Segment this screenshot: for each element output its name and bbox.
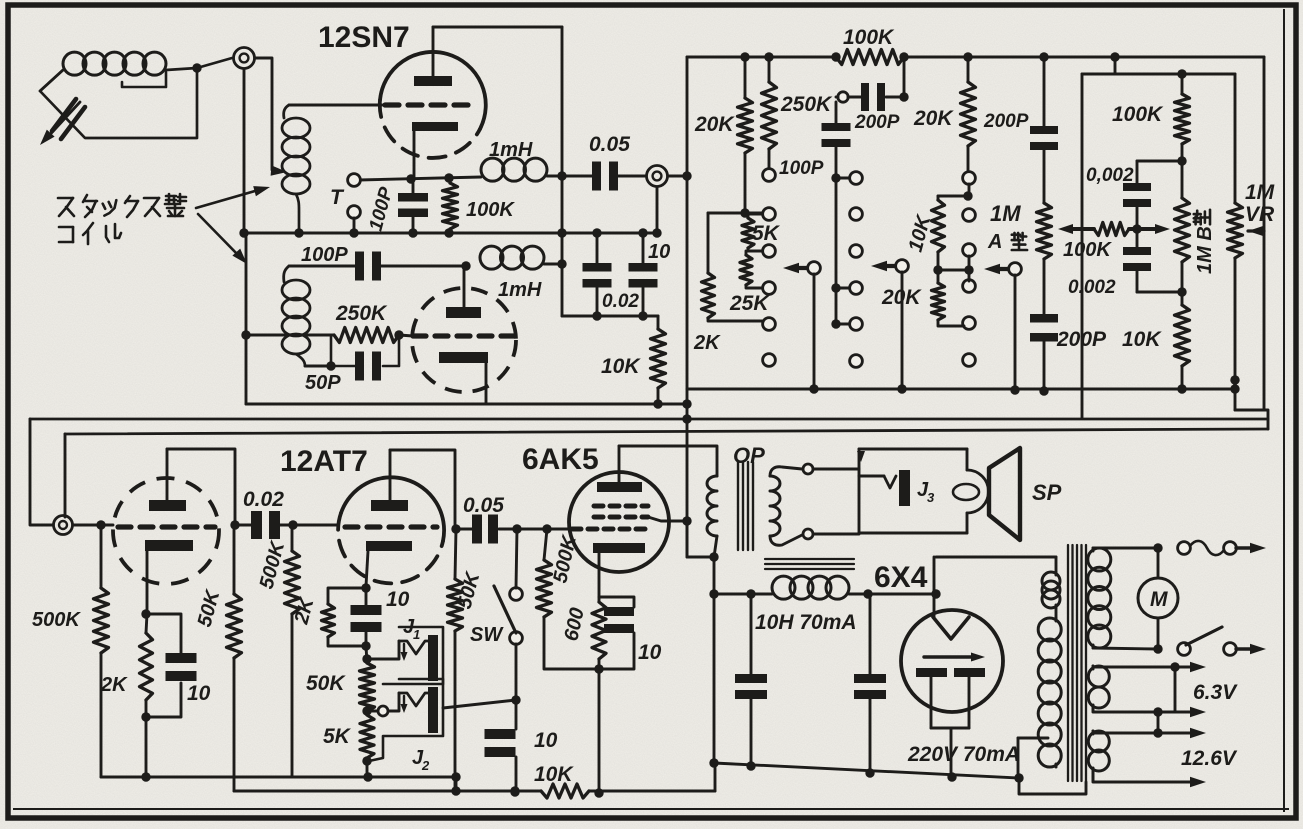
capacitor 200P (1MA top): [983, 57, 1058, 203]
svg-text:2: 2: [421, 758, 430, 773]
wire plate 6AK5 to OP: [619, 446, 717, 476]
tube V3 6AK5 envelope: [569, 472, 669, 572]
inductor 1mH (upper): [481, 139, 592, 181]
V3 grids: [572, 506, 648, 529]
wire cathode 6AK5 to ground: [594, 659, 603, 798]
svg-text:0,002: 0,002: [1086, 165, 1134, 186]
label 12.6V: [1181, 747, 1238, 770]
svg-text:100K: 100K: [1063, 239, 1112, 261]
V4 plates: [933, 557, 969, 639]
coil L1: [282, 105, 310, 233]
svg-text:1M: 1M: [990, 201, 1021, 226]
choke core marks: [765, 559, 854, 569]
capacitor 100P (bank2): [822, 102, 851, 178]
B+ bus (tone section): [687, 52, 1264, 61]
tube V1a 12SN7 envelope: [380, 52, 486, 158]
V1a grid: [385, 102, 470, 107]
svg-text:6.3V: 6.3V: [1193, 681, 1238, 704]
V3 plate: [597, 446, 642, 492]
svg-text:20K: 20K: [913, 107, 954, 130]
svg-text:6X4: 6X4: [874, 561, 928, 594]
svg-text:M: M: [1150, 588, 1168, 611]
svg-text:100P: 100P: [779, 158, 824, 179]
wire heater winding: [936, 557, 1056, 572]
wire PSU to PT bottom: [1019, 778, 1086, 794]
V2a grid: [118, 524, 215, 529]
resistor 10K (ground link): [534, 763, 715, 798]
bank2 column wire: [831, 173, 850, 328]
tube 12AT7 label: [280, 445, 368, 478]
svg-text:10K: 10K: [1122, 328, 1162, 351]
pickup cartridge and antenna coil: [40, 52, 232, 145]
ground bus (upper-left): [239, 228, 657, 237]
svg-text:1: 1: [413, 627, 420, 642]
svg-text:100K: 100K: [466, 199, 515, 221]
svg-text:5K: 5K: [323, 725, 352, 748]
input terminal T1: [234, 48, 255, 69]
label 100P (bank1): [779, 158, 824, 179]
wire 12.6V bottom: [1093, 771, 1206, 787]
wire HV return: [1014, 738, 1048, 783]
tube 12SN7 label: [318, 21, 410, 54]
V3 screen wire: [648, 517, 687, 521]
resistor 10K (dropper): [601, 316, 666, 404]
svg-text:12AT7: 12AT7: [280, 445, 368, 478]
transformer OP: [707, 462, 780, 550]
wire grid V2a: [73, 520, 113, 529]
ground bus (6AK5, with 10K): [234, 777, 541, 796]
svg-text:1mH: 1mH: [489, 139, 533, 161]
PT HV winding: [1038, 608, 1061, 767]
input terminal T3: [54, 516, 73, 535]
ground bus (12AT7): [101, 772, 461, 781]
tube V4 6X4 envelope: [901, 610, 1003, 712]
capacitor 0.05 (coupling): [589, 133, 646, 191]
wire grid1: [289, 104, 382, 107]
label 220V 70mA: [907, 743, 1020, 766]
V1a plate: [414, 27, 452, 86]
wire T2 to tone input: [668, 175, 687, 178]
wire caps bottom: [562, 311, 658, 320]
bottom wire upper box: [246, 399, 687, 408]
PSU ground bus: [714, 763, 1019, 782]
svg-text:VR: VR: [1245, 203, 1275, 226]
svg-text:3: 3: [927, 490, 935, 505]
motor M: [1138, 543, 1178, 653]
divider line lower: [65, 429, 1268, 434]
mains switch: [1178, 627, 1266, 655]
resistor 50K (grid return): [448, 529, 485, 791]
resistor 250K (bank1): [762, 57, 834, 169]
V2a plate: [149, 449, 186, 511]
resistor 100K (bus): [836, 26, 904, 65]
capacitor filter 2: [854, 594, 886, 778]
svg-text:0.05: 0.05: [463, 494, 504, 517]
resistor 20K (bank3 top): [913, 57, 976, 172]
potentiometer 1M A-type: [987, 201, 1052, 259]
switch bank3 contacts: [963, 172, 976, 367]
capacitor 100P (cathode): [366, 179, 428, 233]
capacitor 0.002 (lower): [1068, 229, 1187, 298]
svg-text:100P: 100P: [301, 244, 348, 266]
resistor 2K (bank1): [693, 213, 763, 354]
resistor 10K (bank3): [905, 184, 973, 270]
resistor 5K (bank1): [742, 214, 781, 251]
capacitor 0.002 (upper): [1086, 161, 1182, 229]
switch bank2 contacts: [850, 172, 863, 368]
series link windings: [1158, 667, 1175, 733]
resistor 2K (cathode V2b): [290, 588, 366, 646]
V4 heater: [924, 653, 985, 662]
capacitor filter 1: [735, 594, 767, 771]
svg-text:5K: 5K: [752, 222, 781, 245]
resistor 50K (pot): [306, 663, 375, 716]
resistor 50K (plate load V2a): [194, 525, 242, 791]
capacitor 100P (lower coupling): [355, 252, 381, 281]
resistor 500K (grid V2a): [32, 525, 109, 777]
PT 12.6V winding: [1088, 731, 1109, 771]
V2b grid: [345, 524, 437, 529]
potentiometer 1M VR: [1228, 74, 1276, 410]
wire terminal to coil tap: [255, 58, 287, 176]
svg-text:10: 10: [386, 588, 410, 611]
V4 cathodes: [916, 668, 985, 773]
svg-text:0.02: 0.02: [602, 291, 639, 312]
svg-text:1mH: 1mH: [498, 279, 542, 301]
svg-text:10: 10: [648, 241, 670, 263]
svg-text:50P: 50P: [305, 372, 341, 394]
V1b cathode: [439, 352, 488, 404]
terminal T pair: [330, 174, 360, 238]
svg-text:50K: 50K: [306, 672, 346, 695]
svg-text:6AK5: 6AK5: [522, 443, 599, 476]
svg-text:10K: 10K: [601, 355, 641, 378]
capacitor 10 (cathode V2a): [146, 614, 211, 717]
svg-text:20K: 20K: [881, 286, 922, 309]
output terminal T2: [647, 166, 668, 187]
label sutakkusu-sei koiru (Stax-made coil): [58, 194, 186, 244]
capacitor 10 (SW): [485, 700, 558, 797]
resistor 100K (treble top): [1112, 69, 1190, 198]
tube V1b 12SN7 envelope: [412, 288, 516, 392]
tube 6X4 label: [874, 561, 928, 594]
svg-text:200P: 200P: [983, 111, 1029, 132]
resistor 20K (bank3 bottom): [881, 270, 964, 326]
V2b cathode: [366, 541, 412, 586]
svg-text:1M: 1M: [1245, 181, 1275, 204]
svg-text:0.02: 0.02: [243, 488, 284, 511]
switch bank1 contacts: [763, 169, 776, 367]
svg-text:12.6V: 12.6V: [1181, 747, 1238, 770]
svg-text:0.002: 0.002: [1068, 277, 1116, 298]
V1a cathode: [412, 122, 458, 178]
svg-text:10H 70mA: 10H 70mA: [755, 611, 857, 634]
svg-text:10: 10: [638, 641, 662, 664]
resistor 25K (bank1): [729, 251, 770, 315]
V3 cathode: [593, 543, 645, 602]
inductor 1mH (lower): [480, 246, 562, 301]
bank3 wiper node: [933, 256, 1021, 390]
wire B+ riser: [682, 57, 691, 557]
label 10H 70mA: [755, 611, 857, 634]
svg-text:10: 10: [534, 729, 558, 752]
speaker SP: [989, 448, 1062, 540]
svg-text:2K: 2K: [693, 332, 721, 354]
svg-text:1M B: 1M B: [1194, 226, 1216, 274]
divider line upper: [30, 418, 1268, 421]
coil L2: [282, 266, 310, 366]
wire T2 shield to bus: [652, 187, 661, 238]
svg-text:100K: 100K: [843, 26, 895, 49]
capacitor 0.05 (coupling 2): [463, 494, 569, 544]
capacitor 200P (1MA bottom): [1030, 259, 1107, 396]
svg-text:SP: SP: [1032, 480, 1062, 505]
wire 6.3V bottom: [1093, 707, 1206, 717]
svg-text:10K: 10K: [534, 763, 574, 786]
resistor 500K (grid V2b): [256, 525, 300, 777]
svg-text:SW: SW: [470, 624, 504, 646]
tube V2b 12AT7 envelope: [338, 477, 444, 583]
jack J1: [368, 616, 443, 684]
tube V2a 12AT7 envelope: [113, 478, 219, 584]
wire cathode to pot: [362, 646, 371, 664]
wire 20K-2K link: [708, 208, 763, 217]
capacitor 10 (cathode 6AK5): [599, 597, 662, 669]
svg-text:500K: 500K: [32, 609, 81, 631]
potentiometer 1M B-type: [1175, 198, 1217, 305]
wire OP primary bottom: [709, 536, 718, 768]
transformer PT core: [1068, 545, 1086, 781]
resistor 10K (tone box): [1122, 305, 1190, 389]
svg-text:250K: 250K: [335, 302, 388, 325]
transformer OP label: [733, 443, 765, 468]
resistor 20K (bank1 top): [694, 57, 753, 213]
annotation arrow to coil L1: [196, 186, 270, 208]
wire grid-top L2: [289, 261, 471, 270]
OP secondary terminals: [770, 464, 813, 545]
V2a cathode: [145, 540, 193, 614]
svg-text:0.05: 0.05: [589, 133, 630, 156]
bank1 wiper arrow: [783, 262, 820, 389]
svg-text:220V 70mA: 220V 70mA: [907, 743, 1020, 766]
resistor 5K (pot): [323, 711, 374, 777]
wire plate V2b: [390, 450, 461, 534]
svg-text:12SN7: 12SN7: [318, 21, 410, 54]
tone box outline: [1082, 57, 1235, 418]
resistor 2K (cathode V2a): [100, 609, 153, 777]
PT 6.3V winding: [1088, 666, 1109, 708]
wire terminal to bus: [243, 69, 246, 233]
capacitor 0.02 (ripple): [583, 233, 640, 316]
wire J2 to SW: [443, 700, 516, 708]
wire divider to input terminal: [30, 419, 65, 525]
VR wiper arrow: [1235, 57, 1268, 429]
jack J3 plug: [859, 470, 979, 506]
capacitor 10 (ripple): [629, 233, 671, 316]
wire left rail upper box: [241, 233, 334, 404]
annotation arrow to coil L2: [198, 214, 247, 264]
svg-text:T: T: [330, 186, 345, 209]
resistor 100K (cathode): [443, 178, 516, 233]
resistor 600 (cathode): [560, 602, 606, 659]
node K1 wire: [359, 173, 481, 183]
svg-text:100K: 100K: [1112, 103, 1164, 126]
wire 12.6V top: [1093, 728, 1206, 738]
wire OP to J3: [813, 469, 859, 534]
label 6.3V: [1193, 681, 1238, 704]
fuse: [1178, 541, 1266, 555]
wire plate V2b to 0.05: [456, 528, 472, 531]
resistor 500K (grid 6AK5): [537, 529, 600, 669]
PT mains winding: [1088, 548, 1158, 649]
capacitor 10 (cathode V2b): [351, 583, 410, 650]
svg-text:200P: 200P: [854, 112, 900, 133]
resistor 250K (grid L2): [334, 302, 404, 343]
wire 6.3V top: [1093, 662, 1206, 672]
label 100P (lower): [301, 244, 348, 266]
svg-text:20K: 20K: [694, 113, 735, 136]
PT heater winding: [1042, 572, 1060, 608]
capacitor 50P: [305, 335, 399, 394]
capacitor 200P (bank2 top): [836, 57, 909, 133]
wire plate V1a to dropper: [433, 27, 567, 316]
treble wiper 100K: [1058, 223, 1170, 262]
inductor 10H choke: [714, 576, 941, 599]
jack J3 box: [813, 449, 989, 533]
V2b plate: [371, 450, 408, 511]
svg-text:10: 10: [187, 682, 211, 705]
V1b plate: [446, 266, 481, 318]
capacitor 0.02 (coupling): [235, 488, 338, 539]
bank2 wiper arrow: [871, 260, 908, 389]
V1b grid: [399, 335, 516, 336]
switch SW: [470, 529, 522, 705]
svg-text:25K: 25K: [729, 292, 770, 315]
svg-text:250K: 250K: [780, 93, 833, 116]
jack J2: [367, 679, 443, 773]
svg-text:2K: 2K: [100, 674, 128, 696]
wire plate V2a: [167, 449, 240, 530]
tube 6AK5 label: [522, 443, 599, 476]
tone section ground bus: [687, 384, 1240, 394]
wire screen/B+ to OP bottom: [687, 521, 719, 562]
svg-text:A: A: [987, 231, 1002, 253]
